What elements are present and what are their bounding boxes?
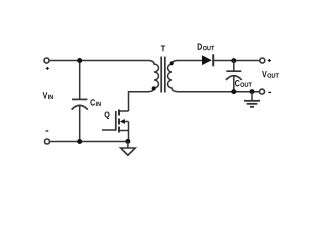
label VOUT: [262, 71, 279, 78]
wire mosfet drain to transformer primary: [129, 92, 149, 111]
label plus input: [46, 67, 49, 70]
label Q: [105, 111, 110, 119]
node ground junction: [250, 89, 255, 94]
wire secondary top to diode: [177, 60, 202, 62]
transformer core: [161, 57, 165, 93]
input terminal minus: [45, 139, 50, 144]
node mosfet source junction: [125, 139, 130, 144]
output terminal plus: [260, 58, 265, 63]
capacitor COUT: [226, 61, 242, 92]
transformer T primary winding: [148, 61, 158, 92]
label VIN: [43, 92, 53, 99]
transformer T secondary winding: [168, 61, 178, 92]
label COUT: [235, 80, 252, 87]
label minus input: [46, 130, 49, 132]
node COUT top junction: [231, 58, 236, 63]
transistor Q mosfet: [102, 110, 129, 142]
label DOUT: [198, 44, 215, 51]
wire bottom rail input to mosfet source: [50, 141, 128, 143]
label plus output: [268, 59, 271, 62]
node CIN top junction: [77, 58, 82, 63]
node COUT bottom junction: [231, 89, 236, 94]
output terminal minus: [260, 89, 265, 94]
ground earth output: [244, 92, 260, 107]
node CIN bottom junction: [77, 139, 82, 144]
node secondary polarity dot: [170, 61, 174, 65]
diode DOUT: [202, 54, 213, 66]
capacitor CIN: [72, 61, 88, 142]
wire diode to output plus: [213, 60, 259, 62]
wire secondary bottom to output minus: [177, 91, 259, 93]
label minus output: [268, 91, 271, 93]
label T: [161, 45, 165, 51]
label CIN: [90, 99, 100, 106]
ground signal triangle: [121, 142, 136, 156]
input terminal plus: [44, 58, 49, 63]
wire top rail input to transformer: [50, 60, 149, 62]
node primary polarity dot: [152, 86, 156, 90]
